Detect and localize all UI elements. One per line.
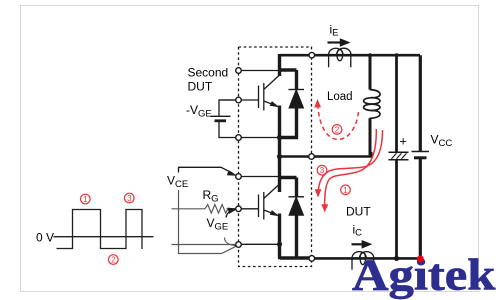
svg-text:2: 2 [335, 125, 340, 134]
svg-text:DUT: DUT [346, 205, 371, 219]
svg-text:DUT: DUT [188, 80, 213, 94]
svg-text:3: 3 [320, 166, 325, 175]
svg-text:1: 1 [343, 186, 348, 195]
svg-text:2: 2 [111, 256, 116, 265]
svg-text:Load: Load [327, 91, 353, 103]
svg-text:Second: Second [188, 66, 229, 80]
svg-text:0 V: 0 V [36, 231, 54, 245]
svg-text:+: + [400, 134, 407, 148]
svg-text:1: 1 [83, 195, 88, 204]
svg-text:3: 3 [127, 194, 132, 203]
svg-text:Agitek: Agitek [352, 251, 496, 299]
